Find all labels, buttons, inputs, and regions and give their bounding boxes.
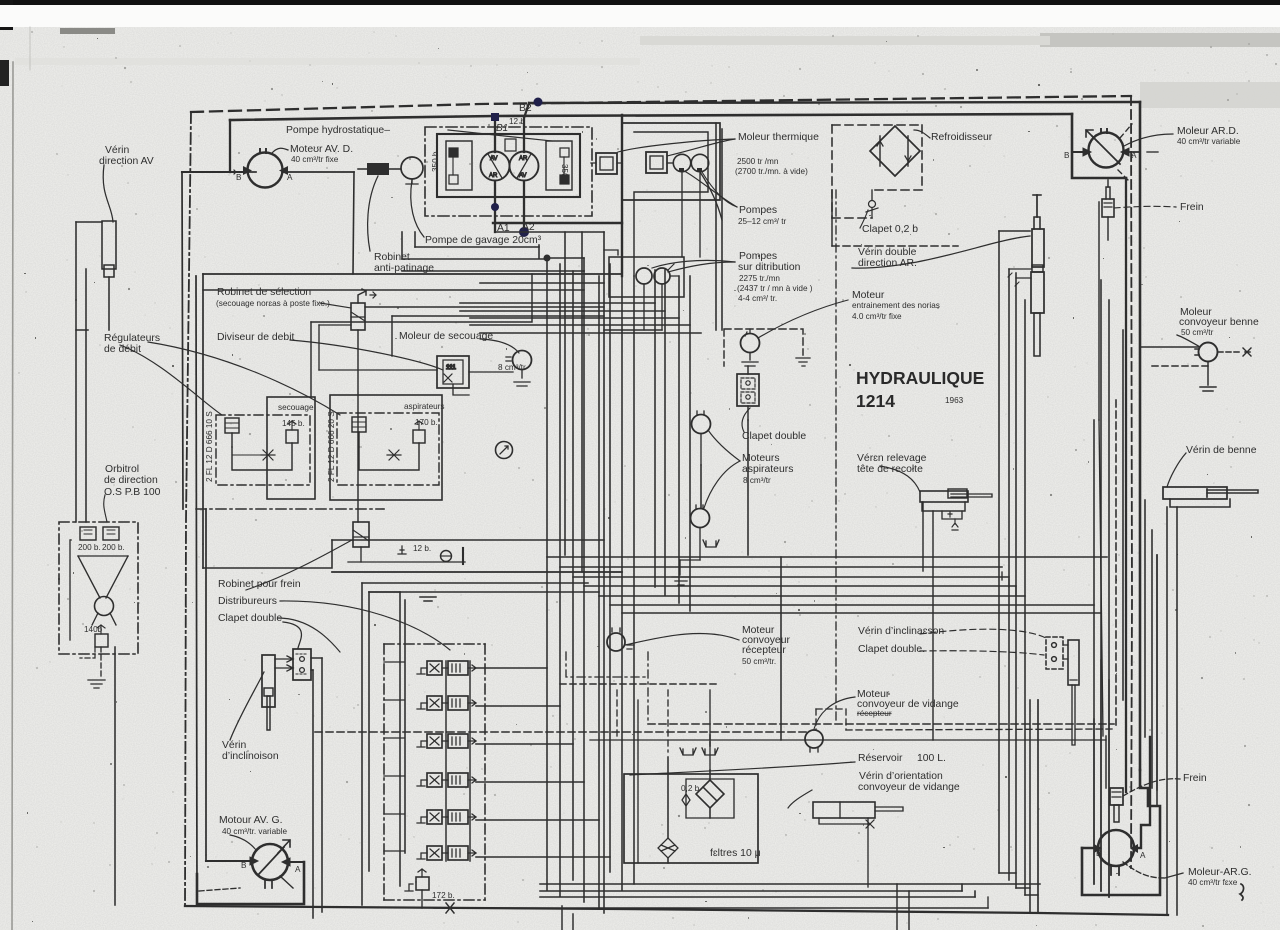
svg-text:2500 tr /mn: 2500 tr /mn <box>737 157 779 166</box>
verin relevage tete de recolte <box>196 466 992 740</box>
leader <box>1124 134 1173 146</box>
robinet anti-patinage (dark block) <box>367 163 389 175</box>
aspirateurs assembly <box>330 395 442 500</box>
svg-text:2275 tr./mn: 2275 tr./mn <box>739 274 780 283</box>
verin d'inclinaison + clapet double (left) <box>230 622 322 918</box>
svg-text:B: B <box>1064 151 1070 160</box>
right heavy vertical from top corner <box>1139 102 1142 770</box>
moteur de secouage <box>469 351 532 387</box>
diviseur de debit <box>437 356 469 395</box>
dashes diagonal to frame corner <box>1120 124 1132 138</box>
svg-text:direction AR.: direction AR. <box>858 258 917 269</box>
svg-text:Régulateurs: Régulateurs <box>104 333 160 344</box>
frein top right <box>1102 199 1114 217</box>
svg-text:AV: AV <box>519 173 527 179</box>
svg-text:A2: A2 <box>522 222 535 233</box>
distributor row stubs left <box>384 662 404 851</box>
distributeurs stack <box>362 583 485 905</box>
scan artifact: gray bands <box>1040 33 1280 47</box>
A1 A2 down <box>494 181 496 232</box>
moteurs aspirateurs <box>672 411 740 585</box>
svg-text:A: A <box>1140 851 1146 860</box>
svg-text:2 FL 12 D 666 20 S: 2 FL 12 D 666 20 S <box>327 411 336 482</box>
svg-text:Distribureurs: Distribureurs <box>218 596 277 607</box>
svg-text:40 cm³/tr fɛxe: 40 cm³/tr fɛxe <box>1188 878 1238 887</box>
gavage pump circle <box>401 157 423 179</box>
svg-text:Diviseur de debit: Diviseur de debit <box>217 332 295 343</box>
svg-text:HYDRAULIQUE: HYDRAULIQUE <box>856 368 984 388</box>
moteur convoyeur de vidange <box>805 730 823 748</box>
svg-text:Vérin d’orientation: Vérin d’orientation <box>859 771 943 782</box>
curves from pompes down right <box>700 172 722 220</box>
moteur convoyeur recepteur <box>566 628 739 724</box>
horizontals below pump block <box>415 246 539 248</box>
svg-text:1963: 1963 <box>945 396 964 405</box>
svg-text:B: B <box>241 861 247 870</box>
svg-text:Moteur: Moteur <box>852 290 885 301</box>
svg-text:Pompes: Pompes <box>739 251 777 262</box>
dashed case-drain line to right <box>648 723 1114 725</box>
B1 corner down to motor AVD level <box>229 120 231 172</box>
relief 172b <box>416 877 429 890</box>
distributor row stubs right <box>476 667 547 669</box>
svg-text:145 b.: 145 b. <box>282 419 305 428</box>
svg-text:anti-patinage: anti-patinage <box>374 263 434 274</box>
gauge circle center left <box>496 442 513 459</box>
secouage assembly <box>216 397 315 499</box>
svg-text:Moleur thermique: Moleur thermique <box>738 132 819 143</box>
robinet pour frein + 12b <box>246 522 465 590</box>
moteur thermique group <box>591 123 737 276</box>
norias chain vertical <box>747 420 749 555</box>
solid top border B1 line <box>230 114 1072 120</box>
refroidisseur <box>832 125 930 228</box>
svg-text:Frein: Frein <box>1183 773 1207 784</box>
central wire bundles <box>196 232 1114 913</box>
relief valves in pump block <box>449 148 458 157</box>
verin d'orientation convoyeur de vidange <box>813 802 875 818</box>
svg-text:Moteʊr AV. D.: Moteʊr AV. D. <box>290 144 353 155</box>
svg-text:Clapet double.: Clapet double. <box>858 644 925 655</box>
svg-text:direction AV: direction AV <box>99 156 154 167</box>
svg-text:convoyeur de vidange: convoyeur de vidange <box>858 782 960 793</box>
svg-text:Vérin: Vérin <box>222 740 246 751</box>
svg-text:AV: AV <box>490 156 498 162</box>
svg-text:Pompes: Pompes <box>739 205 777 216</box>
bottom border <box>185 906 1168 915</box>
svg-text:Réservoir: Réservoir <box>858 753 903 764</box>
svg-text:2 FL 12 D 666 10 S: 2 FL 12 D 666 10 S <box>205 411 214 482</box>
svg-text:O.S P.B 100: O.S P.B 100 <box>104 487 161 498</box>
svg-text:Clapet double: Clapet double <box>218 613 282 624</box>
svg-text:secouage: secouage <box>278 403 314 412</box>
svg-text:(2700 tr./mn. à vide): (2700 tr./mn. à vide) <box>735 167 808 176</box>
robinet de selection component <box>351 303 365 330</box>
bottom staircase right <box>999 873 1038 895</box>
moteur AV.D. <box>231 130 552 274</box>
outer dashed frame top edge <box>191 96 1131 112</box>
svg-text:Robinet pour frein: Robinet pour frein <box>218 579 301 590</box>
scan artifact: left paper edge <box>12 62 13 930</box>
svg-text:A: A <box>287 173 293 182</box>
svg-text:4.0 cm³/tr fixe: 4.0 cm³/tr fixe <box>852 312 902 321</box>
leaders <box>368 176 378 251</box>
reservoir + filtres <box>590 690 1114 887</box>
svg-text:récepteur: récepteur <box>857 709 892 718</box>
svg-text:Moleur-AR.G.: Moleur-AR.G. <box>1188 867 1252 878</box>
long line y=740 <box>590 739 1106 741</box>
svg-text:aspirateurs: aspirateurs <box>742 464 793 475</box>
tank below aspirateur motor 2 <box>672 560 690 585</box>
svg-text:Vérin de benne: Vérin de benne <box>1186 445 1257 456</box>
tank symbols above <box>680 748 696 755</box>
svg-text:A: A <box>295 865 301 874</box>
svg-text:Refroidisseur: Refroidisseur <box>931 132 993 143</box>
leader distributeurs <box>280 601 450 650</box>
pompe hydrostatique block <box>358 98 622 569</box>
svg-text:Moleur AR.D.: Moleur AR.D. <box>1177 126 1239 137</box>
svg-text:Robinet de sélection: Robinet de sélection <box>217 287 311 298</box>
verin d'inclinaison right + clapet double <box>920 629 1079 745</box>
pompes sur distribution <box>609 257 735 330</box>
svg-text:12 b: 12 b <box>509 117 525 126</box>
svg-text:B1: B1 <box>496 123 508 134</box>
svg-text:Frein: Frein <box>1180 202 1204 213</box>
extra horizontals upper center (robinet box to pump weave) <box>604 250 618 255</box>
column below motor ARD <box>1098 202 1100 420</box>
right side jogs on long runs <box>1094 660 1109 897</box>
svg-text:récepteur: récepteur <box>742 645 786 656</box>
outer dashed frame right edge <box>1131 96 1132 868</box>
solid top line B2 to right corner <box>529 102 1140 103</box>
svg-text:d’inclinoison: d’inclinoison <box>222 751 279 762</box>
outer dash-dot frame left edge <box>185 112 191 906</box>
svg-text:0,2 b: 0,2 b <box>681 784 700 793</box>
moteur AR.D. top right <box>1072 124 1176 736</box>
svg-text:140b: 140b <box>84 625 103 634</box>
svg-text:Clapet double: Clapet double <box>742 431 806 442</box>
svg-text:tête de recołte: tête de recołte <box>857 464 923 475</box>
label leader verin direction AV <box>103 165 113 222</box>
svg-text:50 cm³/tr: 50 cm³/tr <box>1181 328 1214 337</box>
svg-text:Vérin d’inclinaɛson: Vérin d’inclinaɛson <box>858 626 944 637</box>
long horizontal runs middle band <box>196 508 384 510</box>
svg-text:AR: AR <box>519 156 528 162</box>
additional center verticals <box>203 123 1109 930</box>
svg-text:Pompe de gavage 20cm³: Pompe de gavage 20cm³ <box>425 235 542 246</box>
right side verticals <box>781 280 1157 897</box>
svg-text:Vérin: Vérin <box>105 145 129 156</box>
svg-text:350 b: 350 b <box>431 151 440 172</box>
feeds <box>361 583 363 905</box>
heavy staircase enclosure <box>1082 770 1160 895</box>
dash-dot section boundary wire <box>835 190 837 724</box>
svg-text:4-4 cm³/ tr.: 4-4 cm³/ tr. <box>738 294 777 303</box>
svg-text:sur ditribution: sur ditribution <box>738 262 801 273</box>
svg-text:8 cm³/tr: 8 cm³/tr <box>498 363 526 372</box>
svg-text:Robinet: Robinet <box>374 252 410 263</box>
svg-text:A1: A1 <box>497 223 510 234</box>
svg-text:A: A <box>1131 151 1137 160</box>
svg-text:B: B <box>236 173 242 182</box>
big inner box around assemblies <box>311 274 532 322</box>
svg-text:entrainement des norias: entrainement des norias <box>852 301 940 310</box>
svg-text:de direction: de direction <box>104 475 158 486</box>
left long vertical wires <box>182 172 183 509</box>
svg-text:B2: B2 <box>519 103 532 114</box>
leader to label <box>271 148 288 154</box>
svg-text:de débit: de débit <box>104 344 141 355</box>
verin de benne <box>1163 453 1258 915</box>
lines exiting bottom border <box>897 884 909 930</box>
moteur AR.G. <box>1030 700 1183 913</box>
frein bottom right <box>1106 736 1180 822</box>
svg-text:200 b.: 200 b. <box>78 543 101 552</box>
leaders for regulateurs/diviseur <box>120 345 222 415</box>
svg-text:fɛltres 10 μ: fɛltres 10 μ <box>710 848 761 859</box>
svg-text:AR: AR <box>489 173 498 179</box>
moteur entrainement des norias <box>724 300 848 366</box>
bottom horizontal runs <box>540 883 1040 885</box>
svg-text:Vérin double: Vérin double <box>858 247 917 258</box>
svg-text:(secouage norɛas à poste fix: (secouage norɛas à poste fixe.) <box>216 299 330 308</box>
svg-text:40 cm³/tr fixe: 40 cm³/tr fixe <box>291 155 339 164</box>
svg-text:25–12 cm³/ tr: 25–12 cm³/ tr <box>738 217 787 226</box>
robinet de selection + assemblies box <box>120 274 622 572</box>
moteur ARD heavy elbow: down right side <box>1072 114 1126 178</box>
svg-text:convoyeur benne: convoyeur benne <box>1179 317 1259 328</box>
svg-text:170 b.: 170 b. <box>415 418 438 427</box>
moteur convoyeur benne <box>1140 335 1252 391</box>
clapet double (center) <box>737 366 759 432</box>
moteur AV.G. <box>197 835 304 904</box>
scan artifact: top black bar <box>0 0 1280 5</box>
svg-text:350 b: 350 b <box>560 164 569 185</box>
leaders from labels to components <box>618 139 735 152</box>
svg-text:Clapet 0,2 b: Clapet 0,2 b <box>862 224 918 235</box>
svg-text:(2437 tr / mn à vide ): (2437 tr / mn à vide ) <box>737 284 813 293</box>
svg-text:50 cm³/tr.: 50 cm³/tr. <box>742 657 776 666</box>
heavy bottom link <box>493 222 622 224</box>
verticals center going down <box>546 258 548 890</box>
verin double direction AR <box>852 195 1044 888</box>
svg-text:Vérɛn relevage: Vérɛn relevage <box>857 453 927 464</box>
verin direction AV cylinder <box>102 221 116 269</box>
svg-text:111: 111 <box>446 364 456 371</box>
orbitrol de direction <box>59 495 138 905</box>
corner pen squiggle mark <box>1240 884 1244 900</box>
left B-line of motor AVD <box>182 171 248 173</box>
heavy enclosure <box>197 862 304 904</box>
svg-text:12 b.: 12 b. <box>413 544 431 553</box>
svg-text:Orbitrol: Orbitrol <box>105 464 139 475</box>
svg-text:aspirateurs: aspirateurs <box>404 402 445 411</box>
svg-text:1214: 1214 <box>856 391 895 411</box>
svg-text:Pompe hydrostatique–: Pompe hydrostatique– <box>286 125 390 136</box>
svg-text:Motour AV. G.: Motour AV. G. <box>219 815 283 826</box>
svg-text:100 L.: 100 L. <box>917 753 946 764</box>
HYDRAULIQUE 1214 title <box>856 368 984 411</box>
svg-text:172 b.: 172 b. <box>432 891 455 900</box>
B1 B2 verticals <box>494 117 496 152</box>
horizontals below pump <box>480 282 604 284</box>
svg-text:200 b.: 200 b. <box>102 543 125 552</box>
svg-text:40 cm³/tr variable: 40 cm³/tr variable <box>1177 137 1241 146</box>
svg-text:40 cm³/tr. variable: 40 cm³/tr. variable <box>222 827 288 836</box>
svg-text:8 cm³/tr: 8 cm³/tr <box>743 476 771 485</box>
right angles connecting band to right verticals <box>1002 572 1016 595</box>
